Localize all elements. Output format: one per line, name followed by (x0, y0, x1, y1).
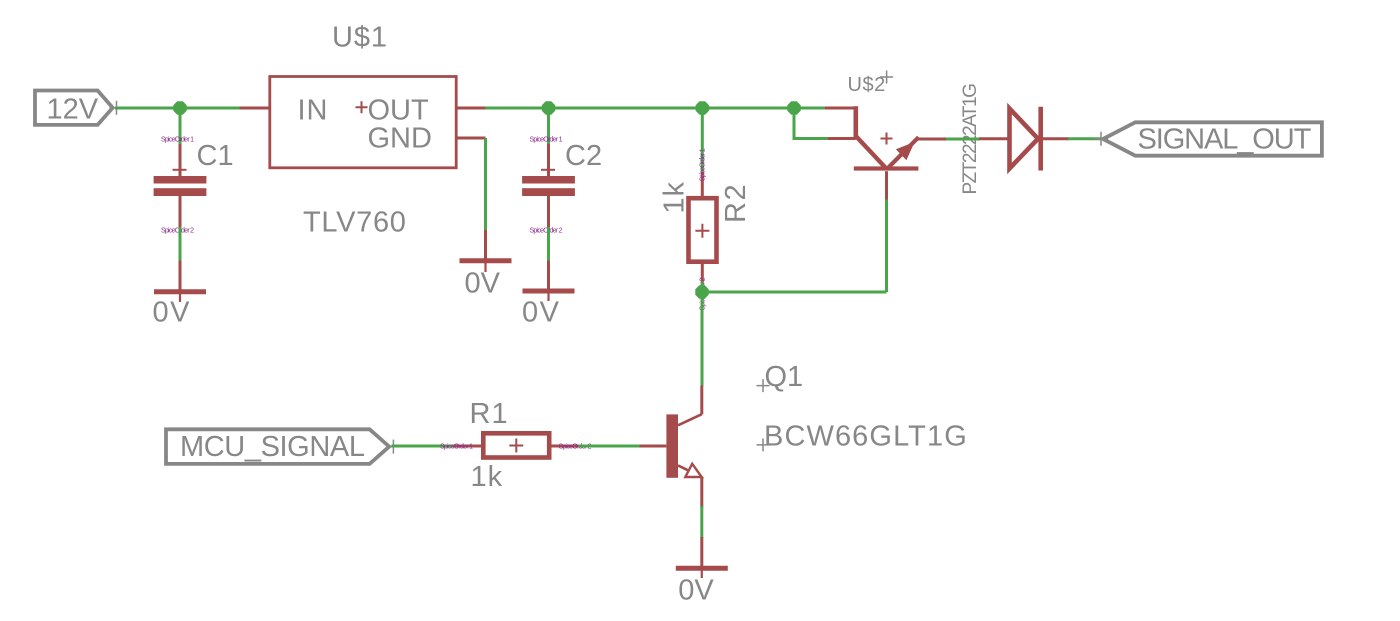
value 1k (R1) (471, 461, 504, 493)
value label BCW66GLT1G (764, 420, 968, 452)
wire C2 to ground (547, 227, 550, 262)
capacitor C1 (154, 144, 207, 228)
pin OUT of U$1 (456, 107, 486, 110)
ground 0V (C2) (522, 291, 575, 329)
svg-text:U$2: U$2 (848, 74, 886, 96)
wire OUT rail (485, 107, 825, 110)
diode D1 (1010, 107, 1070, 171)
SpiceOrder 1 text (R2, rotated) (700, 148, 707, 181)
label Q1 (765, 361, 804, 393)
junction on rail at C2 (542, 101, 555, 114)
resistor R1 (453, 433, 580, 457)
svg-text:TLV760: TLV760 (303, 207, 407, 239)
origin cross U$1 (356, 101, 368, 113)
label R2 (rotated) (720, 183, 752, 223)
supply tag 12V (35, 91, 113, 126)
svg-text:1k: 1k (471, 461, 504, 493)
voltage regulator U$1 TLV760 box (270, 77, 456, 168)
wire R2 bottom to junction (701, 282, 704, 293)
svg-text:C2: C2 (565, 140, 602, 172)
SpiceOrder 1 text (R1) (440, 444, 473, 451)
pin IN of U$1 (240, 107, 271, 110)
ground lead (Q1) (700, 537, 703, 566)
junction on rail at U$2 (787, 101, 800, 114)
svg-text:SIGNAL_OUT: SIGNAL_OUT (1138, 124, 1312, 156)
ground lead (C1) (179, 261, 182, 290)
junction on rail at R2 (696, 101, 709, 114)
transistor U$2 PZT2222A (825, 106, 948, 199)
wire 12V rail left (115, 107, 240, 110)
wire R2 branch green (701, 108, 704, 174)
svg-text:Q1: Q1 (765, 361, 804, 393)
value 1k (R2, rotated) (659, 181, 691, 214)
svg-text:SpiceOrder 1: SpiceOrder 1 (530, 136, 563, 143)
pin cross at 12V tip (110, 101, 124, 115)
svg-text:GND: GND (368, 122, 432, 154)
wire U$2 base down (885, 199, 888, 293)
net tag SIGNAL_OUT (1103, 122, 1322, 155)
wire C1 branch green (179, 108, 182, 146)
net tag MCU_SIGNAL (166, 429, 389, 464)
svg-text:R2: R2 (720, 183, 752, 223)
wire Q1 emitter to ground (700, 506, 703, 538)
wire R1 to Q1 base (579, 445, 641, 448)
wire C1 to ground (179, 227, 182, 262)
svg-text:1k: 1k (659, 181, 691, 214)
wire junction down to Q1 collector (701, 292, 704, 386)
wire U$2 collector jog (794, 108, 828, 139)
svg-text:C1: C1 (197, 140, 234, 172)
svg-text:SpiceOrder 2: SpiceOrder 2 (161, 227, 194, 234)
SpiceOrder 2 text (R1) (559, 444, 592, 451)
junction below R2 (695, 285, 708, 298)
ground lead (C2) (547, 261, 550, 289)
wire C2 branch green (547, 108, 550, 146)
SpiceOrder 2 text (C2) (530, 227, 563, 234)
svg-text:SpiceOrder 1: SpiceOrder 1 (161, 136, 194, 143)
ground 0V (Q1) (676, 568, 728, 606)
capacitor C2 (522, 144, 575, 228)
junction on rail at C1 (173, 101, 186, 114)
SpiceOrder 2 text (R2, rotated) (700, 277, 707, 310)
diode anode lead (979, 137, 1010, 140)
label C1 (197, 140, 234, 172)
pin cross at SIGNAL_OUT tip (1094, 132, 1108, 146)
transistor Q1 BCW66 (640, 386, 702, 508)
svg-text:0V: 0V (678, 575, 714, 607)
svg-text:0V: 0V (522, 297, 560, 329)
ground lead (U$1) (484, 230, 487, 259)
value label TLV760 (303, 207, 407, 239)
wire MCU_SIGNAL to R1 (391, 445, 454, 448)
SpiceOrder 1 text (C1) (161, 136, 194, 143)
label U$2 (848, 74, 886, 96)
pin GND of U$1 (456, 137, 486, 140)
svg-text:0V: 0V (465, 267, 501, 299)
svg-text:R1: R1 (470, 398, 509, 430)
pin cross at MCU_SIGNAL tip (386, 440, 400, 454)
wire emitter to diode (946, 138, 980, 141)
label U$1 (332, 21, 388, 53)
svg-text:0V: 0V (153, 297, 191, 329)
ground 0V (U$1 GND) (460, 261, 512, 300)
SpiceOrder 2 text (C1) (161, 227, 194, 234)
svg-text:12V: 12V (47, 94, 99, 126)
text origin cross (BCW66 label) (757, 438, 770, 451)
wire GND net down (484, 138, 487, 232)
text origin cross (U$2 label) (880, 71, 893, 84)
svg-text:SpiceOrder 1: SpiceOrder 1 (440, 444, 473, 451)
label R1 (470, 398, 509, 430)
svg-text:SpiceOrder 1: SpiceOrder 1 (700, 148, 707, 181)
svg-text:SpiceOrder 2: SpiceOrder 2 (530, 227, 563, 234)
svg-text:BCW66GLT1G: BCW66GLT1G (764, 420, 968, 452)
SpiceOrder 1 text (C2) (530, 136, 563, 143)
wire junction to U$2 base (702, 291, 887, 294)
ground 0V (C1) (153, 292, 207, 329)
text origin cross (Q1 label) (757, 379, 770, 392)
wire diode to SIGNAL_OUT (1068, 137, 1101, 140)
resistor R2 (689, 172, 717, 284)
label C2 (565, 140, 602, 172)
svg-text:U$1: U$1 (332, 21, 388, 53)
svg-text:IN: IN (298, 94, 329, 126)
svg-text:MCU_SIGNAL: MCU_SIGNAL (180, 431, 365, 463)
origin cross U$2 (881, 133, 893, 145)
value label PZT2222AT1G (rotated) (960, 84, 981, 195)
